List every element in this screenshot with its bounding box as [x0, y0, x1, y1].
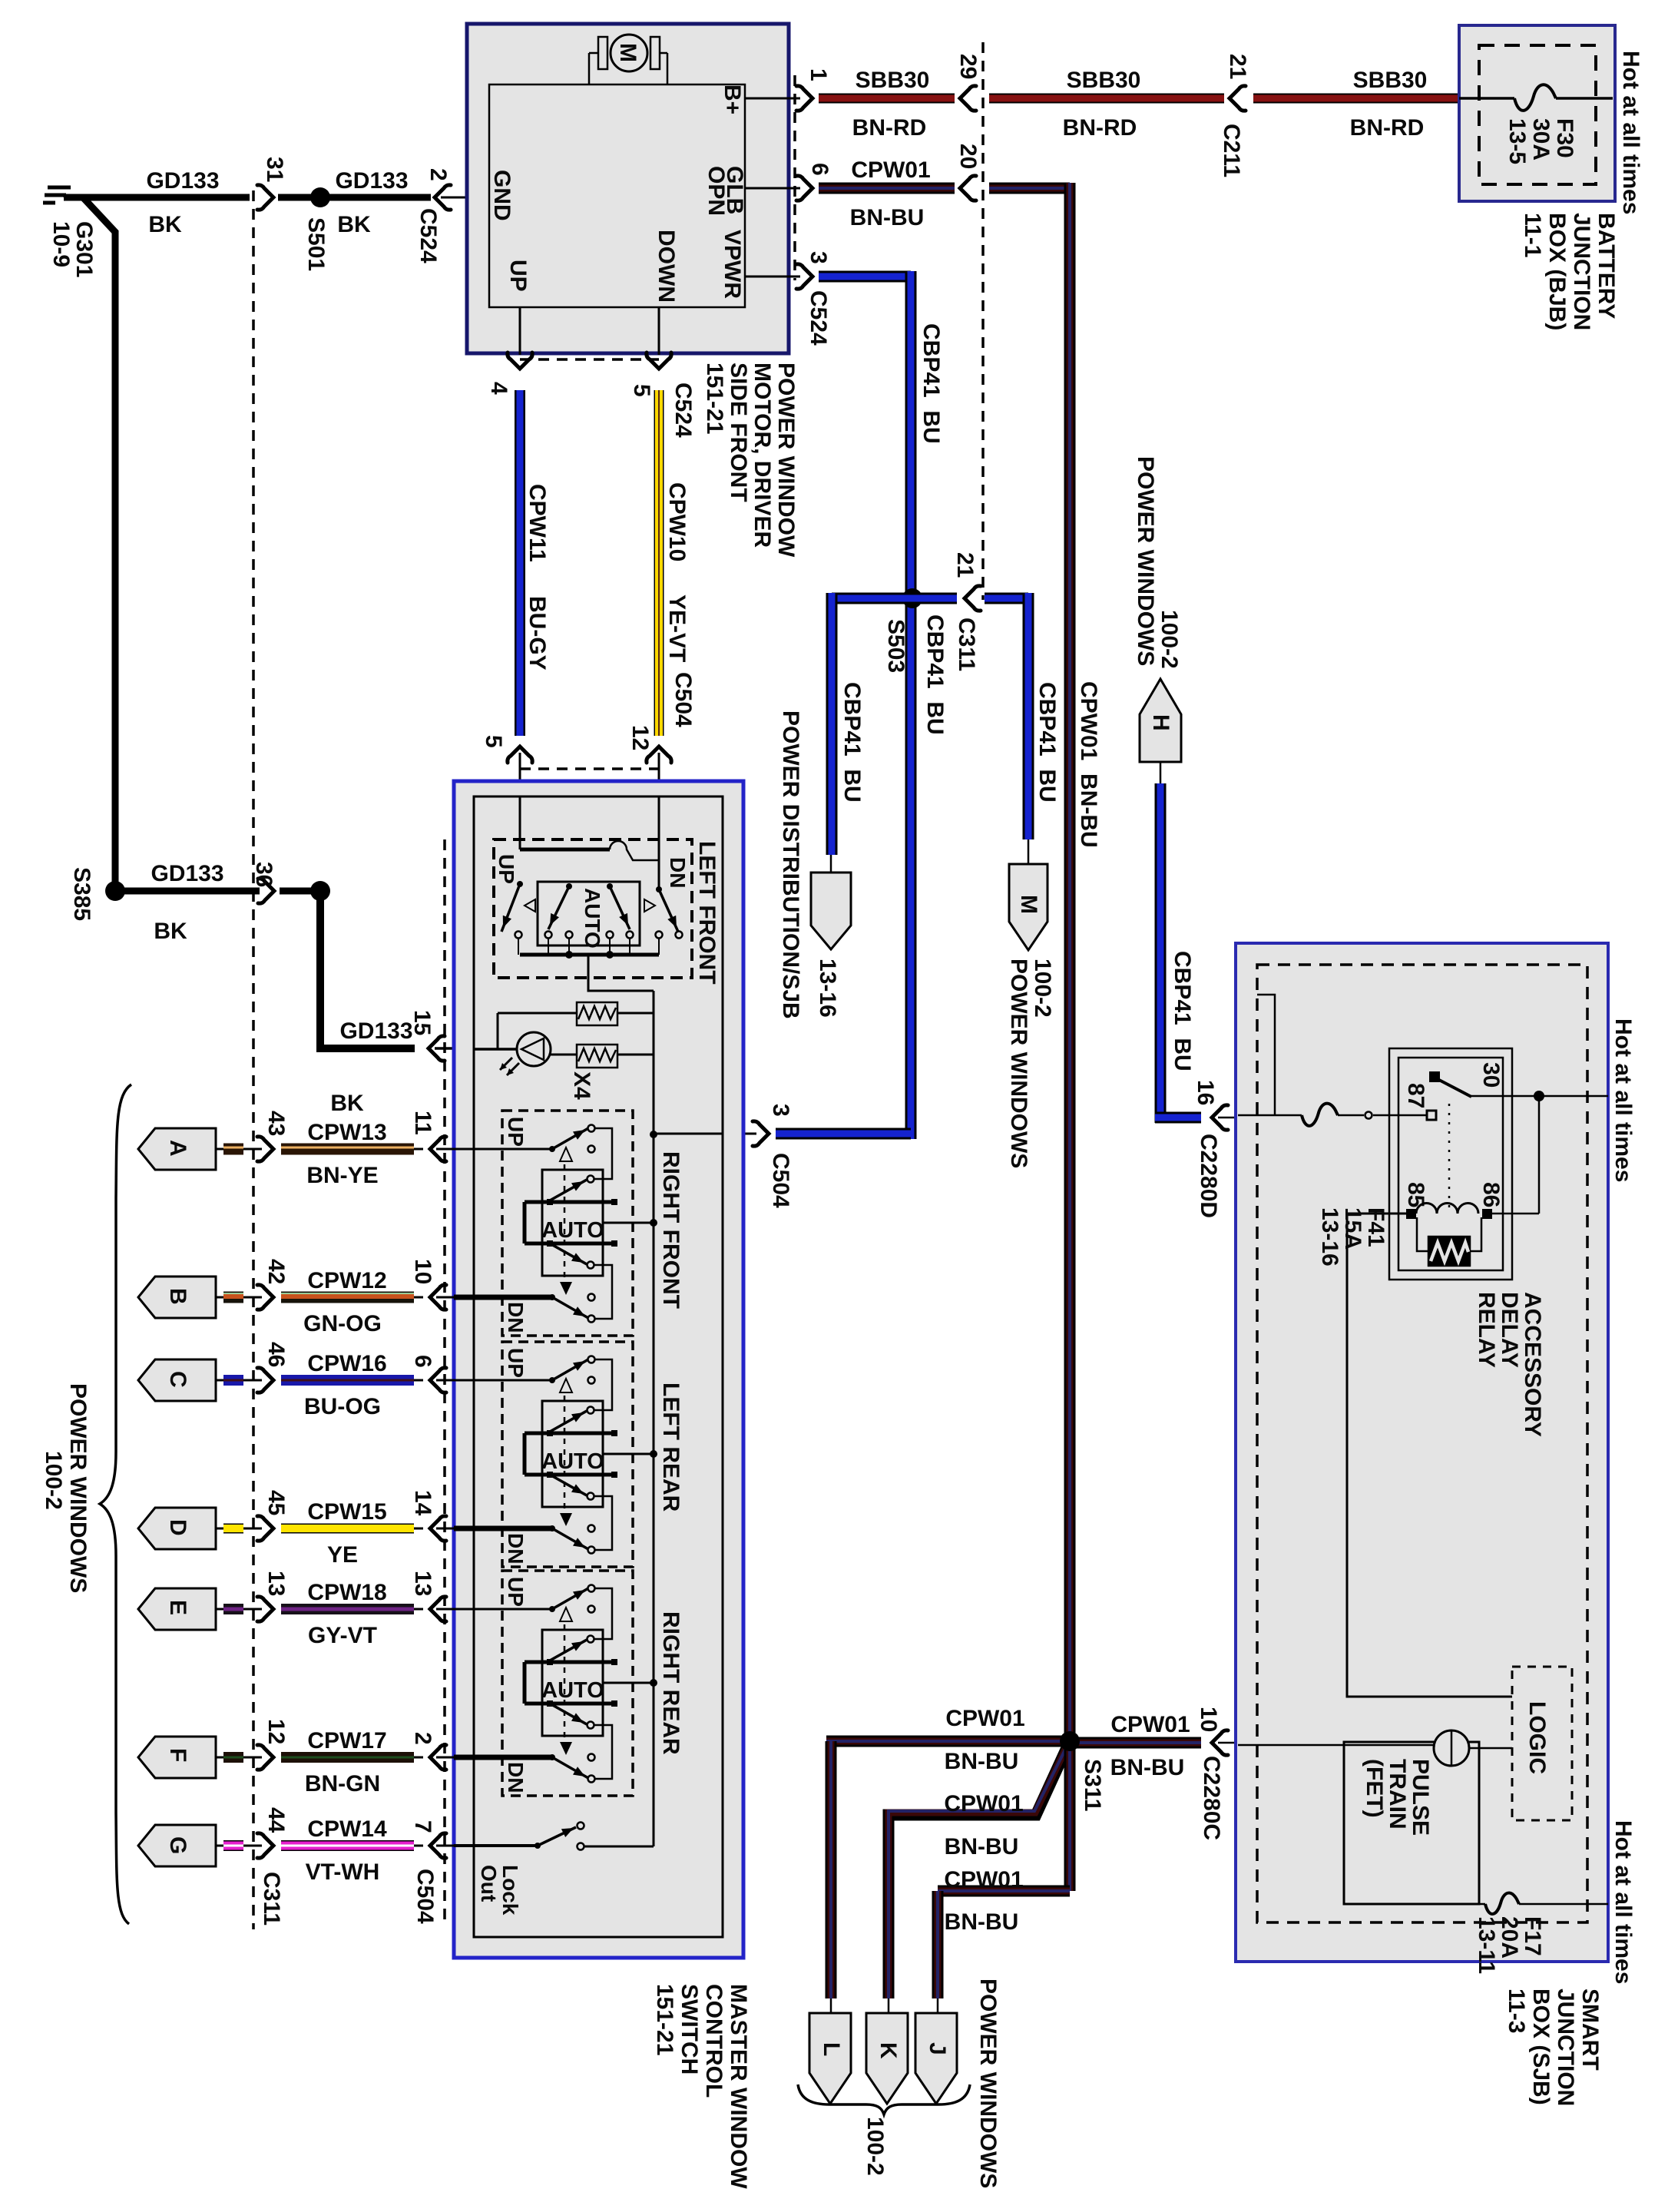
svg-text:C2280C: C2280C: [1199, 1756, 1224, 1840]
pin 12 arrow master top: [647, 747, 671, 763]
svg-text:21: 21: [952, 552, 978, 578]
svg-text:31: 31: [262, 157, 287, 182]
svg-text:ACCESSORY: ACCESSORY: [1520, 1292, 1545, 1437]
connector B: [138, 1277, 216, 1318]
wire CPW14 VT-WH row G: [216, 1845, 223, 1847]
branch wire down to S385: [83, 197, 115, 891]
svg-text:PULSE: PULSE: [1408, 1759, 1433, 1836]
svg-text:BK: BK: [330, 1091, 364, 1116]
pin 31 arrow: [257, 185, 273, 210]
svg-text:JUNCTION: JUNCTION: [1569, 213, 1594, 330]
svg-text:Hot at all times: Hot at all times: [1610, 1018, 1636, 1182]
left front UP bus: [520, 848, 610, 852]
svg-text:44: 44: [263, 1807, 289, 1833]
svg-text:DN: DN: [666, 857, 690, 888]
svg-text:M: M: [1016, 895, 1041, 914]
svg-text:C524: C524: [806, 290, 831, 346]
svg-text:CPW01 BN-BU: CPW01 BN-BU: [1076, 681, 1101, 848]
blue feed line inside box: [654, 1133, 723, 1135]
svg-text:GND: GND: [489, 170, 515, 221]
svg-text:DOWN: DOWN: [654, 230, 679, 303]
svg-text:13-16: 13-16: [1317, 1207, 1342, 1267]
wire CPW17 BN-GN row F: [216, 1757, 223, 1759]
relay coil resistor: [1417, 1217, 1430, 1251]
svg-text:CPW01: CPW01: [851, 157, 930, 183]
svg-text:CPW11: CPW11: [525, 484, 550, 562]
svg-text:6: 6: [807, 163, 832, 176]
svg-text:13-16: 13-16: [815, 959, 840, 1018]
svg-text:K: K: [875, 2042, 901, 2059]
svg-text:POWER WINDOWS: POWER WINDOWS: [1133, 456, 1158, 666]
resistor R2: [577, 1045, 617, 1068]
svg-text:AUTO: AUTO: [541, 1449, 604, 1474]
dashed connector line C504: [443, 839, 446, 1924]
svg-text:CPW18: CPW18: [307, 1580, 386, 1605]
connector J: [915, 2013, 957, 2104]
svg-text:LEFT REAR: LEFT REAR: [658, 1382, 683, 1512]
wire CPW11 BU-GY: [515, 390, 525, 736]
svg-text:GD133: GD133: [339, 1018, 412, 1044]
svg-text:CPW17: CPW17: [307, 1728, 386, 1753]
battery junction box: [1459, 25, 1615, 201]
svg-text:B+: B+: [720, 84, 745, 114]
svg-text:BU-OG: BU-OG: [304, 1394, 381, 1419]
svg-text:POWER WINDOWS: POWER WINDOWS: [975, 1979, 1001, 2188]
relay switch arm: [1429, 1071, 1440, 1082]
wire CPW12 GN-OG row B: [216, 1296, 223, 1299]
pin 15 arrow: [429, 1036, 445, 1061]
svg-text:RELAY: RELAY: [1474, 1292, 1499, 1368]
svg-text:2: 2: [425, 168, 451, 181]
svg-text:BN-GN: BN-GN: [305, 1771, 380, 1796]
wire CPW01 branch J: [1064, 1741, 1076, 1891]
svg-text:BK: BK: [337, 212, 371, 237]
svg-text:14: 14: [410, 1490, 435, 1516]
pulse train FET box: [1344, 1742, 1479, 1904]
connector M: [1009, 864, 1048, 950]
svg-text:Hot at all times: Hot at all times: [1610, 1820, 1636, 1984]
svg-text:3: 3: [768, 1104, 793, 1117]
svg-text:BK: BK: [154, 919, 187, 944]
power window motor driver side front box: [467, 24, 789, 353]
svg-text:S501: S501: [303, 217, 329, 271]
svg-text:SBB30: SBB30: [1067, 68, 1141, 93]
wire CPW01 corner to vertical: [989, 183, 1070, 194]
svg-text:Hot at all times: Hot at all times: [1618, 51, 1643, 214]
svg-text:UP: UP: [504, 1117, 528, 1147]
wire CBP41 to master pin 3: [776, 1128, 911, 1140]
svg-text:4: 4: [486, 382, 511, 395]
svg-text:BN-RD: BN-RD: [852, 115, 927, 141]
left front switch arms: [501, 884, 520, 932]
svg-text:YE-VT: YE-VT: [664, 594, 690, 662]
svg-text:5: 5: [629, 384, 654, 397]
svg-text:5: 5: [481, 735, 506, 748]
svg-text:UP: UP: [495, 854, 518, 884]
wire SBB30 BN-RD seg3: [1253, 94, 1459, 104]
svg-text:VPWR: VPWR: [720, 230, 745, 299]
svg-text:15A: 15A: [1340, 1207, 1365, 1250]
svg-text:MOTOR, DRIVER: MOTOR, DRIVER: [750, 363, 775, 548]
svg-text:J: J: [925, 2042, 950, 2055]
svg-text:POWER DISTRIBUTION/SJB: POWER DISTRIBUTION/SJB: [778, 710, 803, 1019]
svg-text:CBP41 BU: CBP41 BU: [1170, 951, 1195, 1071]
wire CPW18 GY-VT row E: [216, 1608, 223, 1611]
svg-text:100-2: 100-2: [1030, 959, 1055, 1018]
wire GD133 BK horizontal to motor GND: [64, 194, 250, 201]
svg-text:CPW15: CPW15: [307, 1499, 386, 1525]
svg-text:BU-GY: BU-GY: [525, 596, 550, 671]
connector C: [138, 1359, 216, 1401]
splice S385: [105, 881, 125, 901]
svg-text:CPW01: CPW01: [945, 1706, 1024, 1731]
svg-text:LEFT FRONT: LEFT FRONT: [694, 841, 720, 985]
svg-text:B: B: [165, 1288, 190, 1305]
svg-text:AUTO: AUTO: [581, 888, 604, 949]
svg-text:151-21: 151-21: [702, 363, 727, 434]
svg-text:AUTO: AUTO: [541, 1218, 604, 1243]
svg-text:C504: C504: [412, 1869, 438, 1924]
svg-text:SWITCH: SWITCH: [677, 1984, 702, 2075]
connector E: [138, 1588, 216, 1630]
svg-text:CONTROL: CONTROL: [701, 1984, 726, 2098]
svg-text:CBP41 BU: CBP41 BU: [839, 682, 865, 803]
svg-text:16: 16: [1193, 1080, 1218, 1105]
svg-text:C211: C211: [1219, 124, 1244, 177]
svg-text:POWER WINDOWS: POWER WINDOWS: [1006, 959, 1031, 1168]
pin 10 arrow C2280C: [1212, 1730, 1228, 1755]
wire 85 to logic: [1347, 1214, 1512, 1697]
svg-text:Lock: Lock: [498, 1865, 522, 1916]
splice S503: [902, 588, 922, 608]
svg-text:151-21: 151-21: [652, 1984, 677, 2055]
svg-text:BN-RD: BN-RD: [1063, 115, 1137, 141]
FET circle: [1238, 1744, 1434, 1747]
pin 29 arrow: [960, 86, 976, 111]
svg-text:M: M: [615, 43, 640, 62]
connector K: [866, 2013, 908, 2104]
connector power distribution SJB: [811, 873, 851, 949]
wire SBB30 BN-RD seg1: [819, 94, 955, 104]
left front output tap: [588, 955, 654, 991]
svg-text:30: 30: [1478, 1062, 1504, 1088]
svg-text:BK: BK: [148, 212, 182, 237]
svg-text:G: G: [165, 1836, 190, 1854]
splice S500: [310, 881, 330, 901]
svg-text:UP: UP: [504, 1577, 528, 1607]
svg-text:15: 15: [409, 1010, 435, 1035]
svg-text:C524: C524: [415, 208, 441, 263]
svg-text:S503: S503: [883, 619, 909, 673]
motor pin 4 UP: [519, 307, 521, 355]
svg-text:GY-VT: GY-VT: [308, 1623, 377, 1648]
pin 2 arrow C524: [435, 185, 451, 210]
left front switch dashed box: [494, 839, 692, 978]
svg-text:12: 12: [263, 1719, 289, 1744]
svg-text:13: 13: [410, 1571, 435, 1596]
splice S501: [310, 187, 330, 207]
svg-text:DN: DN: [504, 1302, 528, 1333]
svg-text:BN-BU: BN-BU: [1110, 1755, 1185, 1780]
svg-text:SBB30: SBB30: [856, 68, 930, 93]
svg-text:C: C: [165, 1371, 190, 1388]
svg-text:BN-RD: BN-RD: [1350, 115, 1425, 141]
wire CPW16 BU-OG row C: [216, 1379, 223, 1382]
svg-text:CPW01: CPW01: [1110, 1712, 1190, 1737]
svg-text:36: 36: [251, 862, 276, 887]
wire SBB30 BN-RD seg2: [989, 94, 1224, 104]
left brace power windows: [100, 1084, 131, 1924]
svg-text:BATTERY: BATTERY: [1594, 213, 1619, 319]
splice S311: [1060, 1731, 1080, 1751]
svg-text:11: 11: [410, 1111, 435, 1135]
svg-text:SIDE FRONT: SIDE FRONT: [726, 363, 751, 502]
pin 5 arrow master top: [508, 747, 532, 763]
wire CPW01 to SJB pin 10: [1070, 1737, 1201, 1749]
svg-text:F17: F17: [1520, 1916, 1545, 1956]
svg-text:11-3: 11-3: [1504, 1988, 1529, 2033]
svg-text:UP: UP: [505, 260, 531, 292]
svg-text:POWER WINDOW: POWER WINDOW: [773, 363, 799, 558]
svg-text:6: 6: [410, 1355, 435, 1368]
svg-text:POWER WINDOWS: POWER WINDOWS: [65, 1383, 91, 1593]
svg-text:LOGIC: LOGIC: [1524, 1701, 1550, 1774]
svg-text:42: 42: [263, 1259, 289, 1284]
svg-text:CPW01: CPW01: [944, 1791, 1023, 1816]
resistor R1: [498, 1012, 577, 1015]
wire CBP41 left branch to power distribution: [832, 593, 912, 604]
svg-text:F30: F30: [1552, 118, 1577, 158]
svg-text:10: 10: [410, 1259, 435, 1284]
svg-text:MASTER WINDOW: MASTER WINDOW: [726, 1984, 751, 2189]
svg-text:CPW13: CPW13: [307, 1120, 386, 1145]
svg-text:46: 46: [263, 1342, 289, 1367]
svg-text:BOX (SJB): BOX (SJB): [1528, 1988, 1554, 2105]
wire 86 to 30: [1487, 1213, 1539, 1215]
svg-text:RIGHT REAR: RIGHT REAR: [658, 1611, 683, 1755]
accessory delay relay box: [1389, 1048, 1512, 1280]
svg-text:C504: C504: [768, 1153, 793, 1208]
svg-text:RIGHT FRONT: RIGHT FRONT: [658, 1151, 683, 1309]
svg-text:GD133: GD133: [335, 168, 408, 194]
svg-text:DELAY: DELAY: [1497, 1292, 1522, 1368]
svg-text:H: H: [1148, 714, 1173, 731]
connector H: [1140, 679, 1181, 762]
motor pin 5 DOWN: [658, 307, 660, 355]
dashed connector line C524 (motor): [793, 75, 796, 280]
left front contact circles: [515, 932, 522, 939]
svg-text:TRAIN: TRAIN: [1385, 1759, 1410, 1830]
smart junction box SJB: [1236, 943, 1608, 1962]
svg-text:GD133: GD133: [151, 861, 223, 886]
svg-text:BN-YE: BN-YE: [306, 1163, 378, 1188]
svg-text:F: F: [165, 1748, 190, 1762]
svg-text:100-2: 100-2: [1157, 610, 1182, 669]
svg-text:A: A: [165, 1140, 190, 1157]
motor M symbol: [588, 53, 591, 84]
svg-text:YE: YE: [327, 1542, 358, 1568]
pin 16 arrow C2280D: [1212, 1105, 1228, 1130]
svg-text:10: 10: [1196, 1707, 1221, 1732]
motor pin 6: [745, 187, 800, 190]
left front switch feed wires: [519, 796, 521, 849]
svg-text:3: 3: [806, 251, 831, 264]
connector L: [809, 2013, 851, 2104]
svg-text:S311: S311: [1080, 1759, 1105, 1811]
svg-text:SBB30: SBB30: [1353, 68, 1428, 93]
svg-text:CBP41 BU: CBP41 BU: [1034, 682, 1060, 803]
wire GD133 S500 to master pin 15: [320, 891, 415, 1048]
svg-text:GD133: GD133: [146, 168, 219, 194]
svg-text:DN: DN: [504, 1533, 528, 1564]
svg-text:(FET): (FET): [1362, 1759, 1387, 1818]
svg-text:BN-BU: BN-BU: [945, 1749, 1019, 1774]
svg-text:CPW01: CPW01: [944, 1867, 1023, 1892]
connector A: [138, 1128, 216, 1170]
wire CPW01 BN-BU top: [819, 183, 955, 194]
svg-text:BN-BU: BN-BU: [945, 1834, 1019, 1859]
svg-text:86: 86: [1478, 1182, 1504, 1207]
wire CPW01 branch K: [889, 1741, 1070, 1998]
svg-text:S385: S385: [69, 867, 94, 921]
svg-text:E: E: [165, 1600, 190, 1615]
wire GD133 S385 to S500: [123, 888, 260, 895]
svg-text:SMART: SMART: [1577, 1988, 1603, 2071]
svg-text:13-11: 13-11: [1474, 1916, 1499, 1974]
lamp X4: [475, 1048, 516, 1051]
svg-text:CBP41 BU: CBP41 BU: [918, 323, 944, 444]
svg-text:C504: C504: [670, 672, 696, 727]
connector F: [138, 1737, 216, 1778]
connector G: [138, 1825, 216, 1866]
dashed line above master box: [520, 767, 659, 770]
svg-text:OPN: OPN: [703, 166, 729, 216]
svg-text:UP: UP: [504, 1348, 528, 1378]
bracket under LKJ: [798, 2085, 970, 2114]
switch module RIGHT REAR: [502, 1571, 633, 1796]
svg-text:CPW16: CPW16: [307, 1351, 386, 1376]
main bus vertical: [653, 991, 655, 1846]
wire CPW15 YE row D: [216, 1528, 223, 1530]
pin 3 arrow C504: [753, 1121, 769, 1146]
wire CPW01 branch L: [826, 1736, 1064, 1747]
svg-text:7: 7: [410, 1820, 435, 1833]
svg-text:45: 45: [263, 1490, 289, 1515]
pin 36 arrow: [258, 879, 274, 903]
wire CPW13 BN-YE row A: [216, 1148, 223, 1151]
svg-text:BN-BU: BN-BU: [850, 205, 925, 230]
svg-text:1: 1: [806, 68, 831, 81]
connector D: [138, 1508, 216, 1549]
switch module RIGHT FRONT: [502, 1111, 633, 1336]
lock out switch: [454, 1844, 538, 1847]
svg-text:X4: X4: [569, 1071, 594, 1100]
svg-text:30A: 30A: [1528, 118, 1554, 161]
svg-text:Out: Out: [477, 1865, 501, 1902]
dashed connector line C311 (upper): [981, 42, 985, 600]
svg-text:11-1: 11-1: [1520, 213, 1545, 257]
wire CBP41 from H to SJB pin 16: [1160, 762, 1162, 783]
svg-text:100-2: 100-2: [862, 2117, 888, 2176]
svg-text:DN: DN: [504, 1762, 528, 1793]
dashed line under motor box: [520, 358, 659, 361]
wire CPW10 YE-VT: [654, 390, 664, 736]
svg-text:100-2: 100-2: [41, 1451, 66, 1510]
svg-text:13: 13: [263, 1571, 289, 1596]
svg-text:C311: C311: [259, 1872, 284, 1926]
svg-text:D: D: [165, 1519, 190, 1536]
svg-text:GN-OG: GN-OG: [303, 1311, 382, 1336]
motor pin 1: [745, 98, 800, 100]
svg-text:20A: 20A: [1497, 1916, 1522, 1959]
fuse F30 30A: [1459, 97, 1514, 100]
svg-text:CPW14: CPW14: [307, 1816, 387, 1842]
pin 21 arrow C211: [1230, 86, 1246, 111]
svg-text:JUNCTION: JUNCTION: [1553, 1988, 1578, 2106]
wire CBP41 BU from motor pin 3: [819, 271, 911, 283]
svg-text:BN-BU: BN-BU: [945, 1909, 1019, 1935]
left front indicator triangles: [525, 899, 535, 912]
svg-text:C2280D: C2280D: [1196, 1134, 1221, 1218]
svg-text:CPW10: CPW10: [664, 482, 690, 561]
wire CBP41 right branch to M: [912, 593, 957, 604]
pin 21 arrow at S503: [965, 586, 981, 611]
svg-text:AUTO: AUTO: [541, 1678, 604, 1703]
svg-text:10-9: 10-9: [48, 221, 74, 267]
fuse F17 20A: [1479, 1903, 1485, 1906]
relay coil: [1406, 1209, 1416, 1219]
logic box: [1512, 1667, 1572, 1820]
svg-text:L: L: [819, 2042, 844, 2056]
left front AUTO box: [538, 882, 640, 945]
fuse F41 15A: [1238, 1114, 1302, 1117]
switch module LEFT REAR: [502, 1342, 633, 1567]
svg-text:2: 2: [410, 1732, 435, 1745]
master window control switch box: [454, 781, 743, 1958]
svg-text:C524: C524: [670, 382, 696, 438]
svg-text:VT-WH: VT-WH: [306, 1859, 380, 1885]
svg-text:43: 43: [263, 1111, 289, 1136]
left front bottom bus: [520, 953, 659, 957]
motor pin 3: [745, 276, 800, 278]
pin 20 arrow: [960, 176, 976, 200]
wire CPW01 main vertical: [1064, 183, 1076, 1741]
dashed connector line C311: [252, 190, 255, 1929]
svg-text:C311: C311: [954, 618, 979, 671]
svg-text:G301: G301: [71, 221, 97, 277]
svg-text:F41: F41: [1363, 1207, 1388, 1247]
svg-text:87: 87: [1403, 1083, 1428, 1108]
ground G301: [64, 195, 66, 197]
svg-text:CBP41 BU: CBP41 BU: [922, 614, 948, 735]
svg-text:12: 12: [627, 725, 653, 750]
svg-text:13-5: 13-5: [1504, 118, 1530, 164]
svg-text:21: 21: [1225, 54, 1250, 79]
svg-text:20: 20: [955, 144, 981, 169]
svg-text:BOX (BJB): BOX (BJB): [1544, 213, 1570, 330]
svg-text:CPW12: CPW12: [307, 1268, 386, 1293]
svg-text:29: 29: [955, 54, 981, 79]
